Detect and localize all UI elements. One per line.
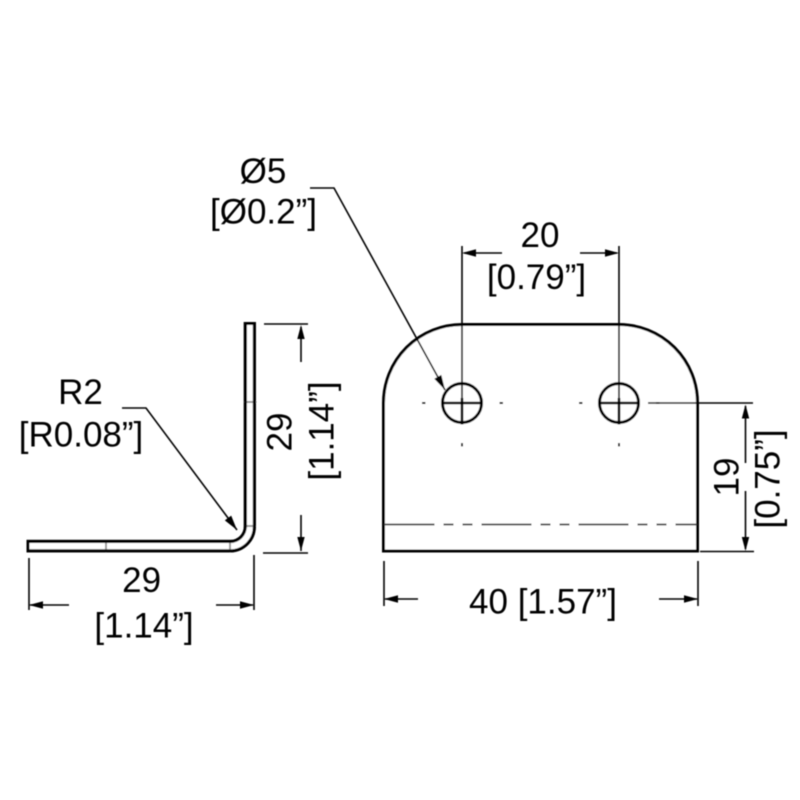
svg-text:19: 19 — [708, 458, 747, 497]
svg-text:Ø5: Ø5 — [240, 152, 287, 191]
svg-text:29: 29 — [122, 561, 161, 600]
svg-text:20: 20 — [521, 216, 560, 255]
svg-text:[Ø0.2”]: [Ø0.2”] — [210, 193, 317, 232]
svg-text:[1.14”]: [1.14”] — [303, 381, 342, 480]
svg-text:R2: R2 — [58, 373, 103, 412]
svg-text:[1.14”]: [1.14”] — [94, 607, 193, 646]
svg-text:40 [1.57”]: 40 [1.57”] — [469, 583, 617, 622]
svg-text:29: 29 — [261, 413, 300, 452]
svg-text:[0.75”]: [0.75”] — [749, 429, 788, 528]
svg-text:[0.79”]: [0.79”] — [487, 258, 586, 297]
svg-text:[R0.08”]: [R0.08”] — [19, 416, 144, 455]
